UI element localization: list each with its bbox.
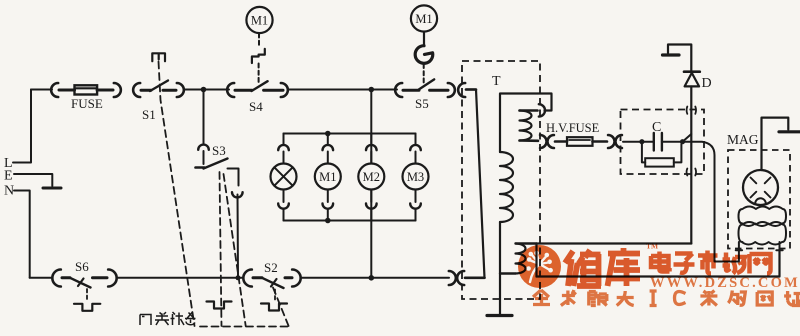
motor M1 (timer, above S5): [411, 5, 437, 31]
watermark big char ku: [608, 248, 641, 286]
wire bottom rail start: [30, 277, 52, 279]
connector filament top: [539, 104, 545, 116]
connector before S4: [227, 83, 234, 97]
svg-text:M1: M1: [251, 14, 268, 28]
wire L to top rail: [13, 90, 31, 163]
wire dashed door line C (S3 to door bar): [224, 174, 246, 326]
wire E to chassis ground: [14, 174, 52, 186]
watermark char chang: [723, 253, 746, 274]
wire into C network: [623, 141, 642, 143]
svg-text:M3: M3: [407, 170, 424, 184]
watermark char wang: [750, 254, 771, 274]
watermark slogan glyph 8: [757, 292, 772, 305]
connector flares at C box top crossing: [686, 107, 689, 114]
label door state (men guan zhuang tai): [140, 312, 196, 325]
connector HV fuse left pair: [540, 135, 547, 148]
connector branch bottom M1: [327, 191, 329, 203]
switch S3: [196, 166, 205, 169]
svg-text:TM: TM: [646, 242, 658, 251]
connector flares at C box bottom crossing: [686, 169, 689, 176]
magnetron anode circle: [743, 170, 778, 205]
connector before S6: [52, 270, 61, 287]
lamp (oven light): [271, 164, 297, 190]
watermark slogan glyph 5: [675, 292, 686, 305]
wire W2 HV to MAG right filament (cathode): [537, 250, 780, 277]
node top bus M1 tap: [325, 131, 331, 137]
resistor (bleeder): [642, 142, 645, 163]
connector branch top M2: [366, 145, 377, 150]
wire bottom bus: [284, 220, 416, 222]
connector after FUSE: [114, 83, 121, 97]
capacitor enclosure (dashed box): [621, 110, 705, 175]
connector branch top LAMP: [278, 145, 289, 150]
motor M1 (fan): [315, 164, 341, 190]
connector branch top M3: [410, 145, 421, 150]
magnetron enclosure MAG (dashed box): [728, 150, 790, 249]
svg-text:WWW.DZSC.COM: WWW.DZSC.COM: [650, 275, 800, 291]
svg-text:FUSE: FUSE: [71, 96, 103, 111]
magnetron filament row 1: [739, 207, 787, 227]
wire dashed door line A (S1 to door bar): [159, 62, 195, 327]
wire dashed door line B (S3 to door bar): [220, 172, 222, 326]
cam (above S5): [415, 46, 433, 64]
svg-text:M1: M1: [319, 170, 336, 184]
watermark char shi: [698, 251, 718, 274]
wire filament bottom lead: [520, 139, 539, 142]
winding primary: [500, 152, 513, 222]
switch S5: [403, 89, 419, 92]
wire bottom rail S6 to S2: [118, 277, 243, 279]
svg-text:M2: M2: [363, 170, 380, 184]
wire dashed S6 to door plunger: [86, 289, 88, 301]
watermark slogan glyph 0: [533, 290, 550, 305]
ground (transformer): [487, 314, 512, 317]
connector after S1: [177, 83, 184, 97]
winding filament (secondary): [520, 111, 532, 141]
wire filament top lead: [520, 109, 538, 112]
switch S2: [253, 276, 262, 279]
wire rail S1 to S4: [185, 89, 229, 91]
wire S3 contact: [228, 169, 239, 186]
connector before S5: [395, 83, 402, 97]
svg-text:D: D: [702, 76, 712, 91]
watermark slogan glyph 6: [700, 291, 717, 306]
connector HV fuse right pair: [608, 135, 615, 148]
switch S4: [235, 89, 252, 92]
wire rail S4 to S5: [289, 89, 397, 91]
wire primary axis to ground: [499, 222, 501, 314]
connector after S2: [292, 270, 301, 287]
wire branch stub top LAMP: [283, 134, 285, 144]
wire M2 drop upper: [370, 91, 372, 163]
connector after S4: [281, 83, 288, 97]
watermark slogan glyph 4: [650, 291, 657, 306]
watermark logo circle: [518, 245, 561, 288]
svg-text:S6: S6: [75, 259, 89, 274]
wire dashed cam to S5: [423, 64, 425, 85]
wire top rail start: [31, 89, 52, 91]
svg-text:H.V.FUSE: H.V.FUSE: [546, 121, 600, 135]
ground (diode chassis bar): [663, 53, 680, 56]
connector branch top M1: [323, 145, 334, 150]
ground (E chassis bar): [43, 187, 61, 190]
svg-text:T: T: [492, 74, 501, 89]
node junction M2 bottom: [369, 275, 375, 281]
connector before S1: [133, 83, 140, 97]
connector T box entry bottom: [449, 271, 456, 285]
wire dashed M1 to cam follower: [258, 34, 260, 48]
capacitor C: [642, 141, 654, 143]
door bar (dashed bottom): [200, 326, 289, 328]
watermark slogan glyph 1: [561, 290, 576, 306]
fuse H.V.FUSE: [555, 140, 567, 143]
svg-text:S3: S3: [212, 143, 226, 158]
connector after S5: [448, 83, 455, 97]
wire diode stem vertical: [690, 87, 692, 244]
wire N to bottom rail: [14, 191, 30, 278]
wire into T primary: [466, 88, 476, 91]
door plunger S6: [74, 304, 100, 311]
magnetron spoke 225: [751, 178, 757, 184]
svg-text:S2: S2: [264, 260, 278, 275]
wire M2 drop lower: [370, 190, 372, 277]
wire into T primary bottom: [465, 276, 485, 279]
wire HV vertical V1: [535, 244, 537, 277]
wire dashed door line D (S2 to door bar): [273, 288, 289, 327]
wire dashed cam to S4: [258, 64, 260, 85]
motor M1 (timer, above S4): [246, 7, 272, 33]
magnetron filament row 2: [739, 222, 787, 245]
watermark slogan glyph 7: [728, 291, 745, 306]
motor M2 (turntable): [358, 164, 384, 190]
connector S3 upper: [198, 145, 209, 150]
connector before FUSE: [51, 83, 58, 97]
ground (magnetron chassis bar): [779, 130, 800, 133]
node bottom bus M1 tap: [325, 218, 331, 224]
connector branch bottom M2: [370, 191, 372, 203]
motor M3: [403, 164, 429, 190]
node junction M2 drop: [369, 87, 375, 93]
switch S6: [62, 276, 70, 279]
filament foot right: [776, 242, 782, 250]
wire branch stub top M3: [415, 134, 417, 144]
wire W1 HV winding to diode stem: [537, 242, 692, 244]
node C left junction: [639, 139, 644, 144]
diode D: [684, 70, 700, 73]
door plunger S2: [261, 304, 287, 311]
connector S3 lower: [232, 192, 243, 197]
connector branch bottom M3: [415, 191, 417, 203]
cam follower (step) above S4: [252, 49, 265, 63]
magnetron spoke 135: [751, 192, 757, 198]
watermark slogan glyph 3: [617, 291, 634, 306]
svg-text:S1: S1: [142, 107, 156, 122]
connector T box entry top: [458, 83, 465, 97]
connector branch bottom LAMP: [283, 191, 285, 203]
wire branch stub top M1: [327, 134, 329, 144]
watermark bottom slogan: [533, 290, 800, 306]
node junction S3 tap: [201, 87, 207, 93]
connector before S2: [243, 270, 252, 287]
magnetron spoke 315: [765, 178, 771, 184]
magnetron cathode notch: [755, 198, 766, 203]
svg-text:S4: S4: [249, 99, 263, 114]
wire diagonal to diode stem: [683, 134, 692, 142]
winding high voltage (secondary): [516, 242, 537, 244]
svg-text:MAG: MAG: [727, 132, 759, 147]
wire filament loop top: [500, 94, 552, 153]
svg-text:C: C: [652, 120, 661, 135]
wire magnetron anode to chassis ground: [762, 118, 789, 170]
watermark char zi: [674, 254, 695, 273]
wire diode to chassis ground: [668, 45, 691, 72]
wire C network right exit to MAG left filament: [684, 142, 739, 262]
connector after S6: [108, 270, 117, 287]
magnetron spoke 45: [765, 192, 771, 198]
wire bottom rail S2 to T box: [301, 277, 449, 279]
filament foot left: [736, 242, 742, 250]
wire top bus: [284, 133, 416, 135]
svg-text:E: E: [4, 169, 13, 184]
wire dashed S2 to door plunger: [274, 290, 276, 302]
svg-text:S5: S5: [415, 96, 429, 111]
svg-text:N: N: [4, 184, 14, 199]
node C right junction: [680, 139, 685, 144]
wire branch stub top M2: [370, 134, 372, 144]
wire primary left lead: [466, 90, 485, 278]
wire node to S3: [203, 92, 205, 143]
wire S3 to bottom rail: [237, 195, 240, 277]
door plunger middle (S3): [207, 302, 232, 309]
watermark slogan glyph 9: [784, 291, 800, 306]
watermark slogan glyph 2: [589, 292, 607, 306]
wire M1 to cam: [423, 32, 425, 46]
svg-text:M1: M1: [415, 12, 432, 26]
fuse FUSE: [59, 89, 75, 92]
transformer T enclosure (dashed box): [462, 61, 540, 299]
door plunger above S1: [152, 53, 165, 61]
switch S1: [141, 89, 151, 92]
watermark big char wei: [565, 250, 601, 286]
watermark char dian: [651, 252, 670, 272]
